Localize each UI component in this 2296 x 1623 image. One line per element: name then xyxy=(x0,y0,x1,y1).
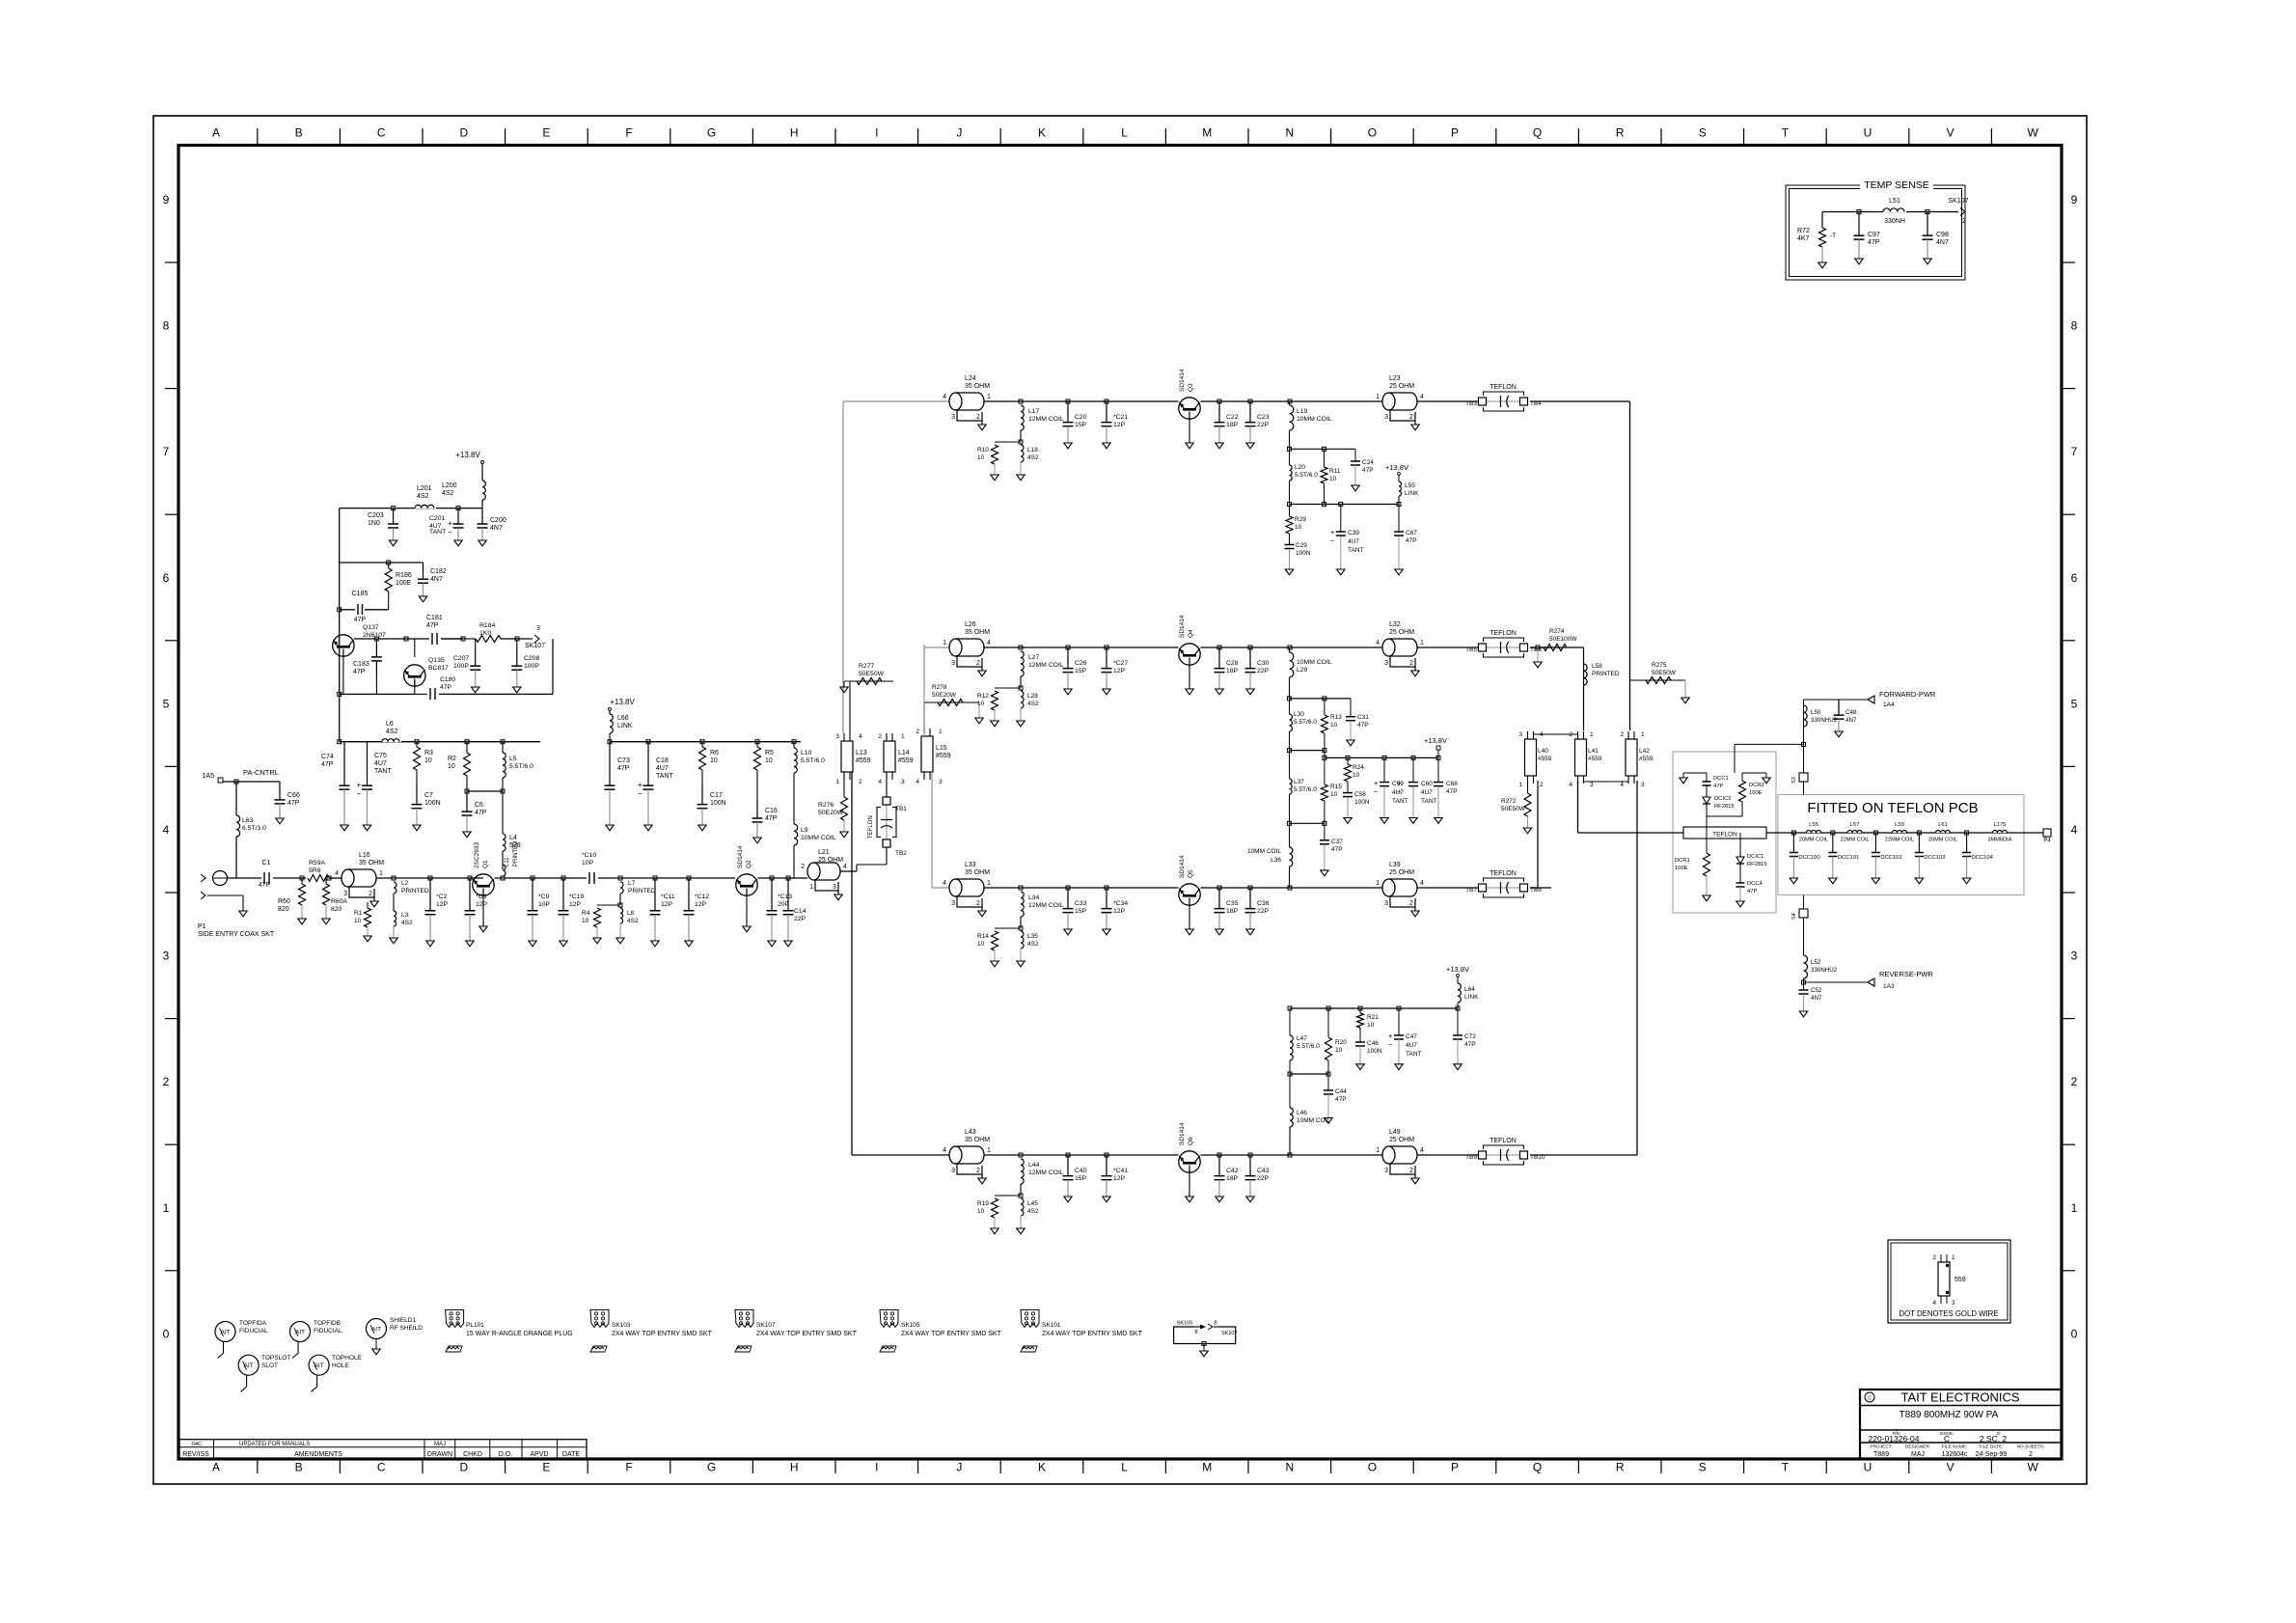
svg-text:L50: L50 xyxy=(1811,709,1821,716)
svg-text:18P: 18P xyxy=(1226,422,1239,428)
svg-text:4S2: 4S2 xyxy=(1027,1208,1039,1215)
svg-text:3: 3 xyxy=(901,779,905,785)
svg-text:6.5T/3.0: 6.5T/3.0 xyxy=(242,825,266,832)
svg-text:2: 2 xyxy=(1540,782,1544,788)
svg-text:Q: Q xyxy=(1533,126,1542,140)
svg-text:100E: 100E xyxy=(1749,790,1763,796)
svg-text:15P: 15P xyxy=(1075,1175,1087,1182)
svg-text:L55: L55 xyxy=(1405,482,1415,489)
svg-text:C14: C14 xyxy=(794,908,806,915)
svg-text:L66: L66 xyxy=(617,715,629,722)
svg-text:10MM COIL: 10MM COIL xyxy=(1297,1117,1330,1124)
svg-text:3: 3 xyxy=(2071,949,2078,963)
svg-text:T889 800MHZ 90W PA: T889 800MHZ 90W PA xyxy=(1900,1410,1999,1420)
svg-text:SK107: SK107 xyxy=(525,643,545,649)
svg-text:18P: 18P xyxy=(1226,908,1239,915)
svg-text:C68: C68 xyxy=(1446,781,1458,787)
svg-text:20MM COIL: 20MM COIL xyxy=(1928,838,1957,843)
svg-text:22MM COIL: 22MM COIL xyxy=(1885,838,1914,843)
svg-text:4: 4 xyxy=(163,823,170,837)
svg-text:1: 1 xyxy=(809,884,813,891)
svg-text:+: + xyxy=(638,781,642,789)
svg-text:K: K xyxy=(1038,126,1046,140)
svg-text:L17: L17 xyxy=(1028,408,1040,415)
svg-text:SIDE ENTRY COAX SKT: SIDE ENTRY COAX SKT xyxy=(198,931,275,938)
svg-text:4: 4 xyxy=(843,864,847,870)
svg-text:2.SC. 2: 2.SC. 2 xyxy=(1980,1434,2008,1444)
svg-text:35 OHM: 35 OHM xyxy=(965,1137,990,1143)
svg-text:Q3: Q3 xyxy=(1188,383,1194,392)
svg-text:TOPHOLE: TOPHOLE xyxy=(332,1355,363,1362)
svg-text:NO,SHEETS:: NO,SHEETS: xyxy=(2016,1444,2044,1450)
svg-text:1: 1 xyxy=(987,394,991,400)
svg-text:R184: R184 xyxy=(479,622,495,629)
svg-text:TEFLON: TEFLON xyxy=(1490,870,1517,877)
svg-text:C66: C66 xyxy=(287,792,300,799)
svg-text:C44: C44 xyxy=(1335,1088,1347,1095)
svg-text:10: 10 xyxy=(977,701,985,707)
svg-text:#559: #559 xyxy=(936,753,951,759)
svg-text:−: − xyxy=(1374,787,1379,796)
svg-text:L5: L5 xyxy=(509,756,517,762)
svg-text:C30: C30 xyxy=(1257,660,1270,667)
svg-text:+: + xyxy=(1374,779,1379,787)
svg-text:−: − xyxy=(1388,1040,1393,1049)
svg-text:C181: C181 xyxy=(426,615,443,621)
svg-text:DATE: DATE xyxy=(562,1451,580,1458)
svg-text:15P: 15P xyxy=(1075,668,1087,674)
svg-text:DCC103: DCC103 xyxy=(1924,855,1945,861)
svg-text:Q2: Q2 xyxy=(746,860,752,868)
svg-text:C52: C52 xyxy=(1811,987,1822,994)
svg-text:559: 559 xyxy=(1954,1277,1966,1283)
svg-text:3: 3 xyxy=(1384,900,1388,907)
svg-text:4S2: 4S2 xyxy=(417,493,429,500)
svg-text:C16: C16 xyxy=(765,808,778,814)
svg-text:2: 2 xyxy=(1932,1254,1936,1261)
svg-text:3: 3 xyxy=(1384,414,1388,421)
svg-text:L46: L46 xyxy=(1297,1110,1307,1116)
svg-text:L59: L59 xyxy=(1895,822,1904,828)
svg-text:3: 3 xyxy=(1952,1300,1955,1307)
svg-text:U: U xyxy=(1864,126,1872,140)
svg-text:35 OHM: 35 OHM xyxy=(965,629,990,636)
svg-text:1: 1 xyxy=(987,880,991,887)
svg-text:4: 4 xyxy=(916,779,919,785)
svg-text:L175: L175 xyxy=(1993,822,2006,828)
svg-text:RF2815: RF2815 xyxy=(1714,804,1735,810)
svg-text:4: 4 xyxy=(1376,640,1380,646)
svg-text:PA-CNTRL: PA-CNTRL xyxy=(243,768,279,777)
svg-text:#559: #559 xyxy=(1588,756,1602,762)
svg-text:12MM COIL: 12MM COIL xyxy=(1028,416,1064,423)
svg-text:G: G xyxy=(707,126,716,140)
svg-text:5.5T/6.0: 5.5T/6.0 xyxy=(509,763,533,770)
svg-text:2: 2 xyxy=(1620,731,1624,738)
svg-text:C201: C201 xyxy=(429,515,445,522)
svg-text:3: 3 xyxy=(951,414,955,421)
svg-text:P4: P4 xyxy=(2043,839,2051,844)
svg-text:4S2: 4S2 xyxy=(1027,701,1039,707)
svg-text:SHIELD1: SHIELD1 xyxy=(390,1317,416,1324)
svg-text:1: 1 xyxy=(1376,880,1380,887)
svg-text:R10: R10 xyxy=(977,447,989,454)
svg-text:R24: R24 xyxy=(1353,764,1364,771)
svg-text:SK107: SK107 xyxy=(756,1322,776,1329)
svg-text:+: + xyxy=(357,781,362,789)
svg-text:Q1: Q1 xyxy=(482,860,489,868)
svg-text:B: B xyxy=(295,126,303,140)
svg-text:FILE NAME:: FILE NAME: xyxy=(1942,1444,1968,1450)
svg-text:35 OHM: 35 OHM xyxy=(965,869,990,876)
svg-text:22MM COIL: 22MM COIL xyxy=(1841,838,1870,843)
svg-text:S4: S4 xyxy=(1791,913,1797,920)
svg-text:MAJ: MAJ xyxy=(1911,1451,1925,1458)
svg-text:47P: 47P xyxy=(259,882,271,889)
svg-text:L29: L29 xyxy=(1297,667,1308,674)
svg-text:TOPSLOT: TOPSLOT xyxy=(261,1355,290,1362)
svg-text:L10: L10 xyxy=(801,750,812,756)
svg-text:8: 8 xyxy=(2071,319,2078,333)
svg-text:TANT: TANT xyxy=(429,529,446,536)
svg-text:L200: L200 xyxy=(442,482,457,489)
svg-text:35 OHM: 35 OHM xyxy=(359,860,384,867)
svg-text:18P: 18P xyxy=(1226,1175,1239,1182)
svg-text:15P: 15P xyxy=(1075,908,1087,915)
svg-text:C200: C200 xyxy=(490,517,506,524)
svg-text:3: 3 xyxy=(1384,660,1388,667)
svg-text:REV/ISS: REV/ISS xyxy=(182,1451,209,1458)
svg-text:2: 2 xyxy=(1409,1168,1413,1174)
svg-text:TB5: TB5 xyxy=(1465,646,1477,653)
svg-text:L63: L63 xyxy=(242,817,254,824)
svg-text:1: 1 xyxy=(1376,394,1380,400)
svg-text:8: 8 xyxy=(1194,1330,1197,1335)
svg-text:L18: L18 xyxy=(1027,447,1038,454)
svg-text:V: V xyxy=(1947,126,1954,140)
svg-text:2: 2 xyxy=(1409,900,1413,907)
svg-text:L30: L30 xyxy=(1294,711,1304,718)
svg-text:L26: L26 xyxy=(965,621,976,628)
svg-text:12P: 12P xyxy=(661,901,673,908)
svg-text:TEFLON: TEFLON xyxy=(1490,630,1517,637)
svg-text:C7: C7 xyxy=(424,792,433,799)
svg-text:47P: 47P xyxy=(426,622,439,629)
svg-text:TANT: TANT xyxy=(1348,547,1364,554)
svg-text:L51: L51 xyxy=(1889,198,1900,205)
svg-text:HOLE: HOLE xyxy=(332,1362,349,1369)
svg-text:4: 4 xyxy=(943,880,946,887)
svg-text:L19: L19 xyxy=(1297,408,1308,415)
svg-text:T889: T889 xyxy=(1873,1451,1889,1458)
svg-text:15 WAY R-ANGLE DRANGE PLUG: 15 WAY R-ANGLE DRANGE PLUG xyxy=(466,1331,573,1337)
svg-text:Q5: Q5 xyxy=(1188,869,1194,878)
svg-text:3: 3 xyxy=(1641,782,1645,788)
svg-text:Q137: Q137 xyxy=(363,624,379,631)
svg-text:L: L xyxy=(1121,1461,1128,1474)
svg-text:LINK: LINK xyxy=(1405,490,1419,497)
svg-text:PRINTED: PRINTED xyxy=(628,888,656,894)
svg-text:4: 4 xyxy=(943,1147,946,1154)
svg-text:C180: C180 xyxy=(440,676,455,683)
svg-text:SD1414: SD1414 xyxy=(1179,855,1186,878)
svg-text:100P: 100P xyxy=(524,663,539,670)
svg-text:FORWARD-PWR: FORWARD-PWR xyxy=(1879,690,1936,699)
svg-text:4: 4 xyxy=(1620,782,1624,788)
svg-text:C67: C67 xyxy=(1406,530,1417,536)
svg-text:50E100W: 50E100W xyxy=(1549,636,1577,643)
svg-text:PROJECT:: PROJECT: xyxy=(1870,1444,1892,1450)
svg-text:47P: 47P xyxy=(1362,467,1374,474)
svg-text:TEMP SENSE: TEMP SENSE xyxy=(1864,179,1929,191)
svg-text:4N7: 4N7 xyxy=(1845,717,1857,724)
svg-text:4S2: 4S2 xyxy=(627,918,639,924)
svg-text:50E20W: 50E20W xyxy=(932,692,957,699)
svg-text:35 OHM: 35 OHM xyxy=(965,383,990,390)
svg-text:L7: L7 xyxy=(628,880,636,887)
svg-text:R275: R275 xyxy=(1652,662,1667,669)
svg-text:C22: C22 xyxy=(1226,414,1239,421)
svg-text:TB2: TB2 xyxy=(895,850,907,857)
svg-text:R60: R60 xyxy=(278,898,290,905)
svg-text:6: 6 xyxy=(2071,571,2078,585)
svg-text:10: 10 xyxy=(1353,772,1360,779)
svg-text:L33: L33 xyxy=(965,862,976,868)
svg-text:5: 5 xyxy=(2071,697,2078,710)
svg-text:3: 3 xyxy=(1590,782,1594,788)
svg-text:+: + xyxy=(1397,779,1402,787)
svg-text:-T: -T xyxy=(1830,233,1836,239)
svg-text:R15: R15 xyxy=(1330,784,1342,790)
svg-text:L61: L61 xyxy=(1938,822,1948,828)
svg-text:1: 1 xyxy=(943,640,946,646)
svg-text:REVERSE-PWR: REVERSE-PWR xyxy=(1879,970,1933,978)
svg-text:TEFLON: TEFLON xyxy=(868,815,874,839)
svg-text:1N0: 1N0 xyxy=(368,520,380,527)
svg-text:*C19: *C19 xyxy=(569,894,584,900)
svg-text:RF2815: RF2815 xyxy=(1747,862,1767,867)
svg-text:L201: L201 xyxy=(417,485,432,492)
svg-text:TEFLON: TEFLON xyxy=(1490,1138,1517,1144)
svg-text:TANT: TANT xyxy=(656,773,673,780)
svg-text:TOPFIDA: TOPFIDA xyxy=(239,1320,267,1327)
svg-text:TANT: TANT xyxy=(1421,798,1437,805)
svg-text:R186: R186 xyxy=(396,572,412,579)
svg-text:1A4: 1A4 xyxy=(1883,701,1895,708)
svg-text:1A3: 1A3 xyxy=(1883,983,1895,990)
svg-text:L16: L16 xyxy=(359,852,370,859)
svg-text:R276: R276 xyxy=(818,802,834,809)
svg-text:12MM COIL: 12MM COIL xyxy=(1028,1169,1064,1176)
svg-text:+13,8V: +13,8V xyxy=(1385,463,1408,472)
svg-text:1: 1 xyxy=(835,779,839,785)
svg-text:100E: 100E xyxy=(396,580,412,587)
svg-text:I: I xyxy=(875,126,878,140)
svg-text:MAJ: MAJ xyxy=(434,1442,446,1447)
svg-text:100N: 100N xyxy=(710,800,726,807)
svg-text:R274: R274 xyxy=(1549,628,1565,635)
svg-text:R29: R29 xyxy=(1295,516,1306,523)
svg-text:10: 10 xyxy=(582,918,589,924)
svg-text:47P: 47P xyxy=(1335,1096,1347,1103)
svg-text:TEFLON: TEFLON xyxy=(1712,832,1737,839)
svg-text:47P: 47P xyxy=(354,617,367,623)
svg-text:50E50W: 50E50W xyxy=(1652,670,1677,676)
svg-text:4S2: 4S2 xyxy=(1027,941,1039,948)
svg-text:L35: L35 xyxy=(1027,933,1038,940)
svg-text:47P: 47P xyxy=(287,800,300,807)
svg-text:#559: #559 xyxy=(898,757,914,764)
svg-text:L44: L44 xyxy=(1028,1162,1040,1169)
svg-text:SD1414: SD1414 xyxy=(737,845,744,868)
svg-text:1: 1 xyxy=(379,870,383,877)
svg-text:22P: 22P xyxy=(1257,422,1270,428)
svg-text:100E: 100E xyxy=(1675,866,1688,871)
svg-text:12MM COIL: 12MM COIL xyxy=(1028,662,1064,669)
svg-text:C29: C29 xyxy=(1296,542,1307,549)
svg-text:47P: 47P xyxy=(765,815,778,822)
svg-text:10: 10 xyxy=(1295,524,1302,531)
svg-text:2: 2 xyxy=(1409,660,1413,667)
svg-text:2: 2 xyxy=(916,729,919,735)
svg-text:*C12: *C12 xyxy=(695,894,709,900)
svg-text:10MM COIL: 10MM COIL xyxy=(1247,848,1281,855)
svg-text:FIDUCIAL: FIDUCIAL xyxy=(314,1328,342,1334)
svg-text:22P: 22P xyxy=(1257,668,1270,674)
svg-text:2: 2 xyxy=(878,733,882,740)
svg-text:47P: 47P xyxy=(1713,784,1723,789)
svg-text:AMENDMENTS: AMENDMENTS xyxy=(294,1451,342,1458)
svg-text:12P: 12P xyxy=(569,901,582,908)
svg-text:*C2: *C2 xyxy=(436,894,448,900)
svg-text:1: 1 xyxy=(1952,1254,1955,1261)
svg-text:R11: R11 xyxy=(1329,468,1341,475)
svg-text:10: 10 xyxy=(765,757,773,764)
svg-text:LINK: LINK xyxy=(617,723,633,729)
svg-text:*C34: *C34 xyxy=(1113,900,1128,907)
svg-text:RF SHEILD: RF SHEILD xyxy=(390,1325,423,1332)
svg-text:5.5T/6.0: 5.5T/6.0 xyxy=(1294,786,1317,793)
svg-text:1: 1 xyxy=(901,733,905,740)
svg-text:47P: 47P xyxy=(1446,788,1458,795)
svg-text:3: 3 xyxy=(951,660,955,667)
svg-text:330NH: 330NH xyxy=(1884,218,1905,225)
svg-text:*C27: *C27 xyxy=(1113,660,1128,667)
svg-text:2: 2 xyxy=(2029,1451,2033,1458)
svg-text:1: 1 xyxy=(1590,731,1594,738)
svg-text:20MM COIL: 20MM COIL xyxy=(1799,838,1828,843)
svg-text:12P: 12P xyxy=(1113,668,1126,674)
svg-text:D.O.: D.O. xyxy=(499,1451,512,1458)
svg-text:R278: R278 xyxy=(932,684,947,691)
svg-text:L21: L21 xyxy=(818,849,830,856)
svg-text:R60A: R60A xyxy=(331,898,347,905)
svg-text:3: 3 xyxy=(163,949,170,963)
svg-text:4S2: 4S2 xyxy=(1027,454,1039,461)
svg-text:TOPFIDB: TOPFIDB xyxy=(314,1320,341,1327)
svg-text:7: 7 xyxy=(2071,445,2078,458)
svg-text:24-Sep-99: 24-Sep-99 xyxy=(1976,1451,2008,1458)
svg-text:47P: 47P xyxy=(321,761,334,768)
svg-text:R3: R3 xyxy=(424,750,433,756)
svg-text:DCC100: DCC100 xyxy=(1798,855,1819,861)
svg-text:2: 2 xyxy=(976,1168,980,1174)
svg-text:3: 3 xyxy=(536,625,540,632)
svg-text:C203: C203 xyxy=(368,512,384,519)
svg-text:Q6: Q6 xyxy=(1188,1137,1194,1145)
svg-text:100N: 100N xyxy=(1354,799,1370,806)
svg-text:PRINTED: PRINTED xyxy=(401,888,429,894)
svg-text:4U7: 4U7 xyxy=(1406,1042,1417,1049)
svg-text:*C13: *C13 xyxy=(778,894,792,900)
svg-text:4: 4 xyxy=(1932,1300,1936,1307)
svg-text:50E20W: 50E20W xyxy=(818,810,844,816)
svg-text:B: B xyxy=(295,1461,303,1474)
svg-text:J: J xyxy=(956,126,962,140)
svg-text:R19: R19 xyxy=(977,1200,989,1207)
svg-text:2: 2 xyxy=(976,660,980,667)
svg-text:2X4 WAY TOP ENTRY SMD SKT: 2X4 WAY TOP ENTRY SMD SKT xyxy=(612,1331,713,1337)
svg-text:47P: 47P xyxy=(440,684,452,691)
svg-text:4N7: 4N7 xyxy=(490,525,503,532)
svg-text:R: R xyxy=(1616,126,1625,140)
svg-text:12MM COIL: 12MM COIL xyxy=(1028,902,1064,909)
svg-text:C182: C182 xyxy=(430,568,447,575)
svg-text:C60: C60 xyxy=(1421,781,1433,787)
svg-text:N: N xyxy=(1285,126,1294,140)
svg-text:P1: P1 xyxy=(198,923,206,930)
svg-text:25 OHM: 25 OHM xyxy=(818,857,843,864)
svg-text:L32: L32 xyxy=(1389,621,1401,628)
svg-text:1: 1 xyxy=(1420,640,1424,646)
svg-text:12P: 12P xyxy=(436,901,449,908)
svg-text:C207: C207 xyxy=(453,655,469,662)
svg-text:L45: L45 xyxy=(1027,1200,1038,1207)
svg-text:C37: C37 xyxy=(1331,839,1343,845)
svg-text:CHKD: CHKD xyxy=(463,1451,482,1458)
svg-text:C: C xyxy=(377,126,386,140)
svg-text:100N: 100N xyxy=(1367,1048,1382,1055)
svg-text:1: 1 xyxy=(1641,731,1645,738)
svg-text:47P: 47P xyxy=(1331,846,1343,853)
svg-text:0: 0 xyxy=(163,1327,170,1340)
svg-text:TB9: TB9 xyxy=(1465,1154,1477,1161)
svg-text:O: O xyxy=(1368,126,1377,140)
svg-text:0: 0 xyxy=(2071,1327,2078,1340)
svg-text:−: − xyxy=(357,789,362,798)
svg-text:L40: L40 xyxy=(1538,748,1548,755)
svg-text:PL101: PL101 xyxy=(466,1322,484,1329)
svg-text:10: 10 xyxy=(710,757,718,764)
svg-text:C98: C98 xyxy=(1936,232,1949,238)
svg-text:TANT: TANT xyxy=(1406,1051,1422,1058)
svg-text:L52: L52 xyxy=(1811,959,1821,966)
svg-text:47P: 47P xyxy=(1406,537,1417,544)
svg-text:2: 2 xyxy=(976,414,980,421)
svg-text:R5: R5 xyxy=(765,750,774,756)
svg-text:2: 2 xyxy=(859,779,862,785)
svg-text:10: 10 xyxy=(1330,722,1338,729)
svg-text:−: − xyxy=(1330,536,1335,545)
svg-text:N: N xyxy=(1285,1461,1294,1474)
svg-text:2: 2 xyxy=(369,891,372,897)
svg-text:L36: L36 xyxy=(1271,857,1281,864)
svg-text:C: C xyxy=(1944,1434,1950,1444)
svg-text:L55: L55 xyxy=(1809,822,1818,828)
svg-text:*C10: *C10 xyxy=(582,852,596,859)
svg-text:FITTED ON TEFLON PCB: FITTED ON TEFLON PCB xyxy=(1807,800,1978,816)
svg-text:10: 10 xyxy=(448,763,455,770)
